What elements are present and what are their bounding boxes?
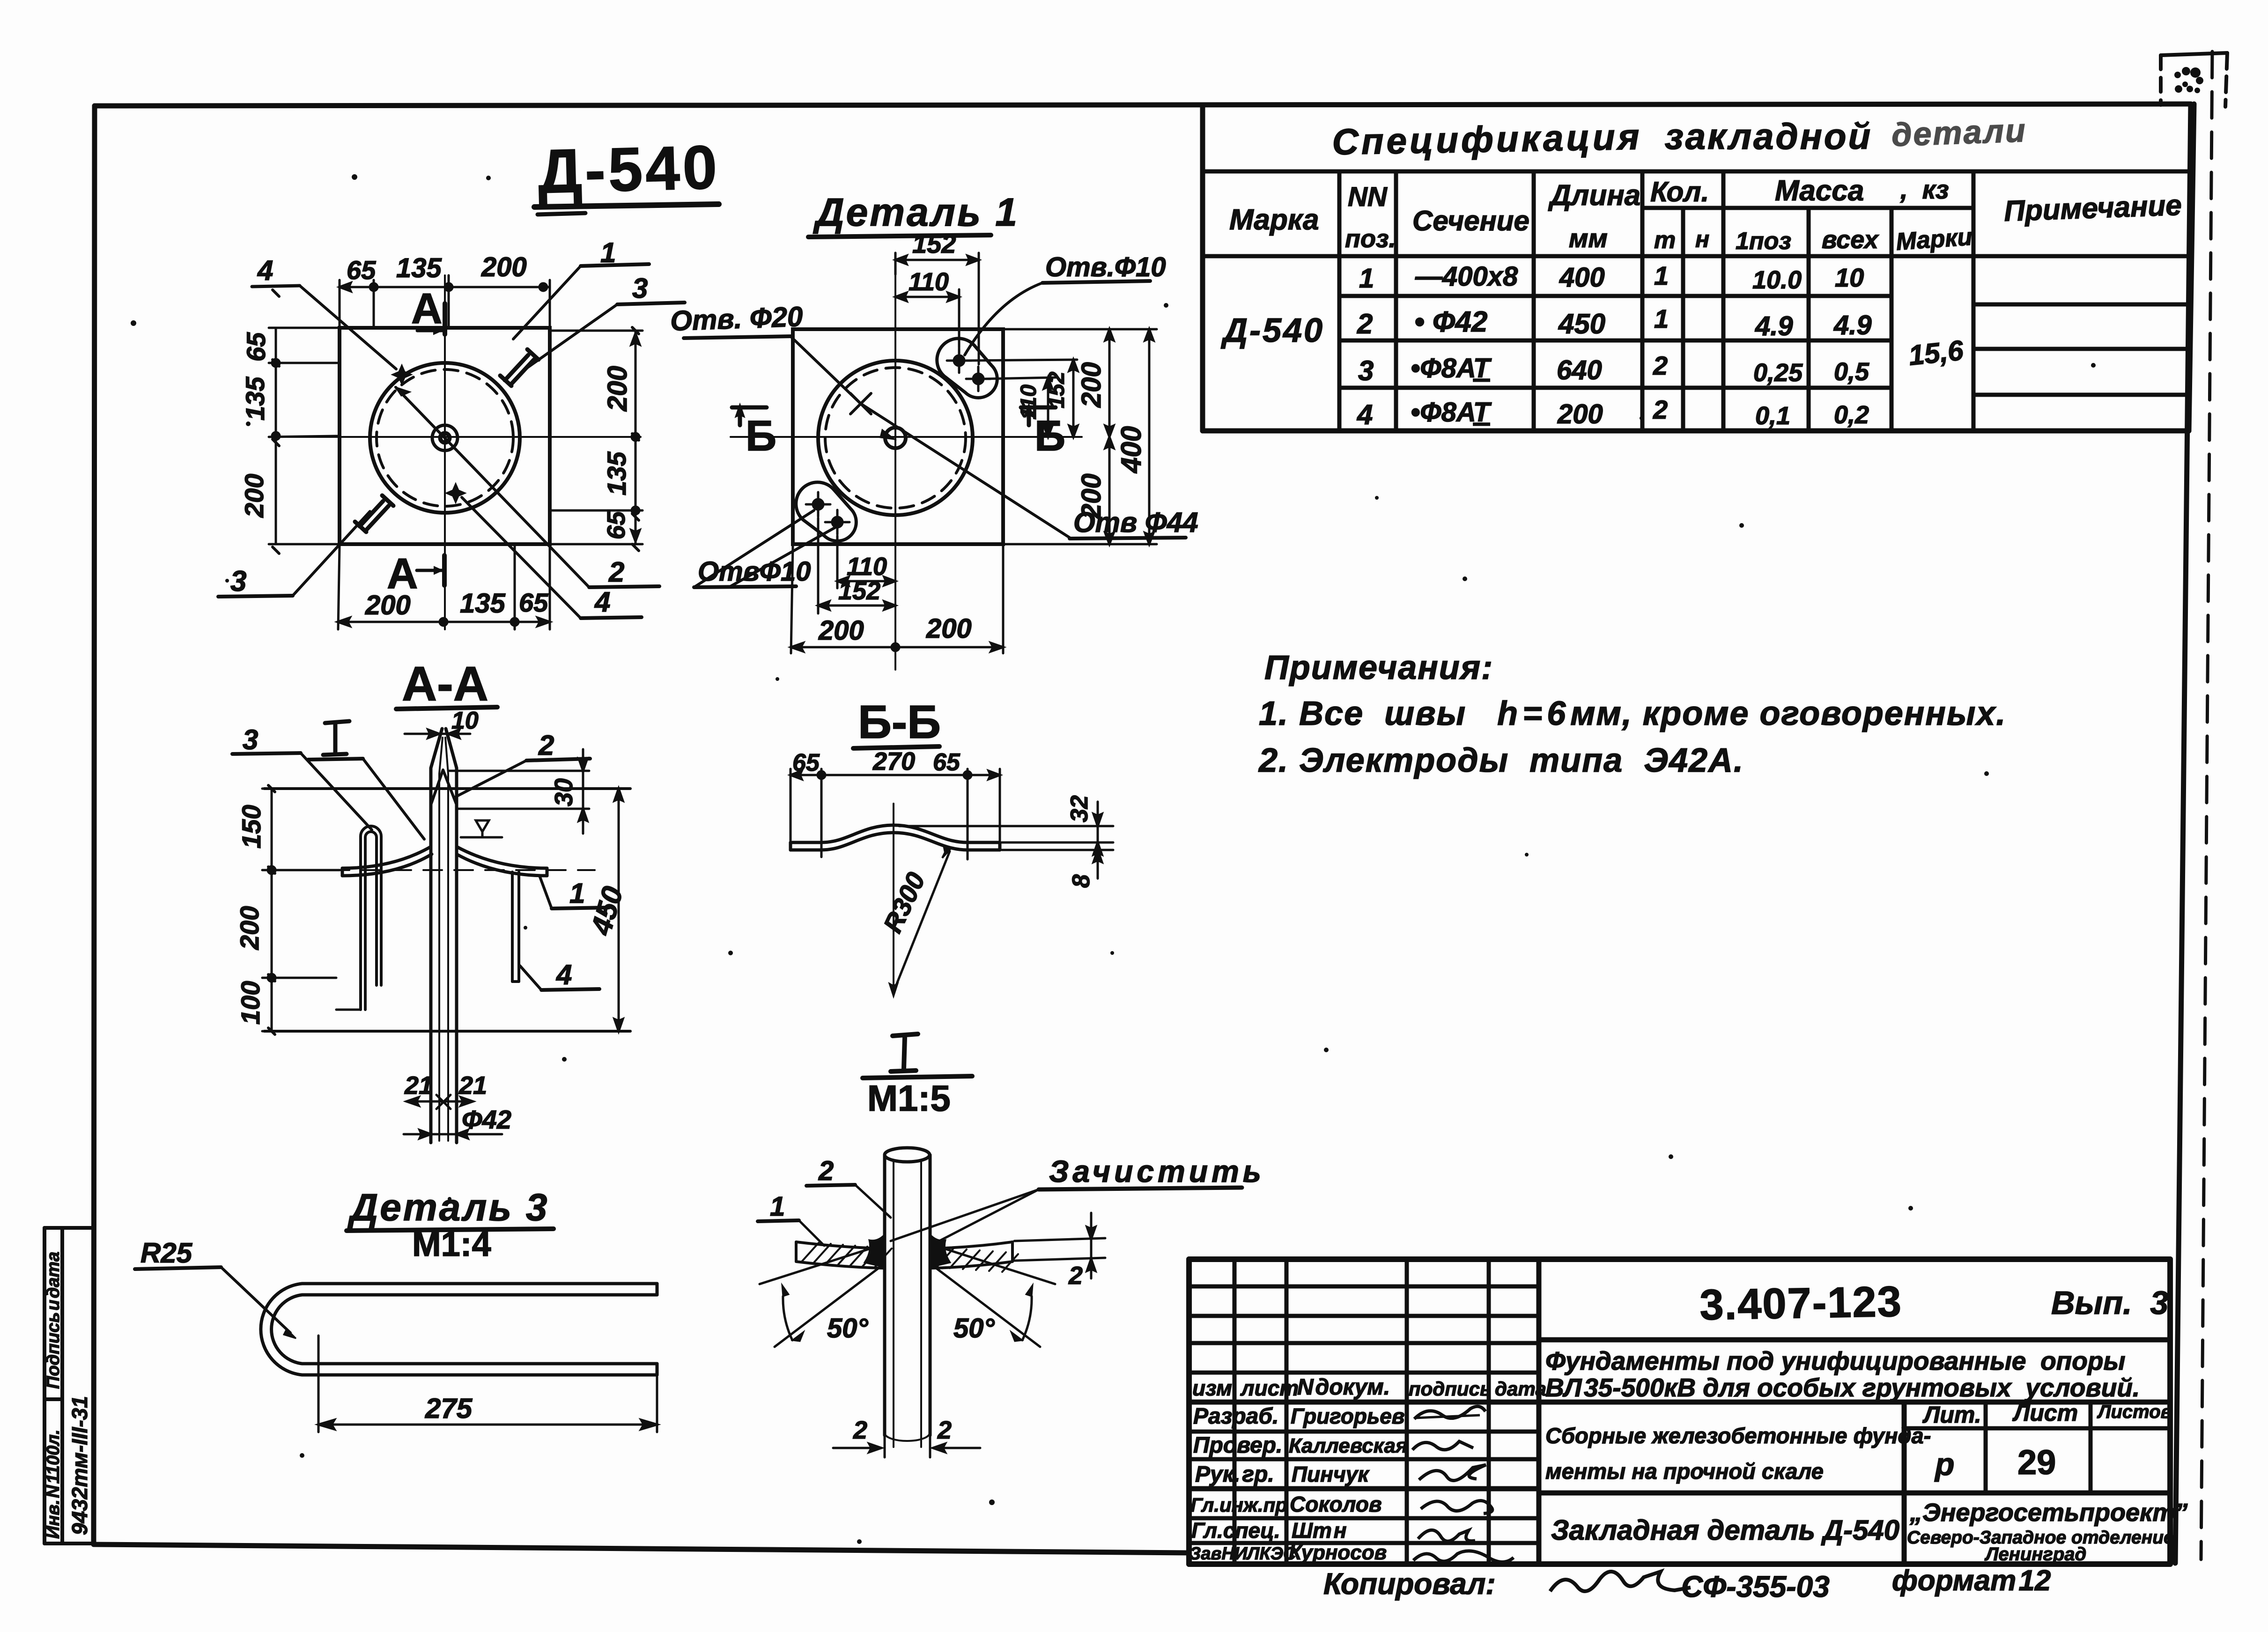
svg-text:3: 3 bbox=[230, 565, 246, 598]
svg-text:М1:4: М1:4 bbox=[412, 1225, 491, 1263]
straight rebar pos.4 bbox=[512, 872, 519, 982]
tube pos.2 bbox=[885, 1148, 930, 1447]
svg-text:Инв. N 1100л.: Инв. N 1100л. bbox=[44, 1430, 63, 1539]
svg-text:65: 65 bbox=[602, 511, 630, 539]
svg-text:32: 32 bbox=[1066, 795, 1093, 822]
svg-text:2: 2 bbox=[1068, 1262, 1083, 1290]
bottom dimension line 200 135 65 bbox=[338, 546, 550, 629]
svg-text:152: 152 bbox=[1044, 372, 1069, 408]
svg-text:0,1: 0,1 bbox=[1755, 402, 1790, 430]
bottom dim f42 bbox=[404, 1130, 502, 1138]
bottom dim 152 bbox=[818, 601, 895, 610]
right dimension line 200 135 65 bbox=[552, 327, 643, 551]
hidden circle dashed bbox=[825, 368, 966, 508]
svg-text:2: 2 bbox=[818, 1156, 834, 1186]
svg-text:•Ф8АТ: •Ф8АТ bbox=[1411, 397, 1492, 428]
svg-text:Фундаменты под унифицированные: Фундаменты под унифицированные опоры bbox=[1545, 1346, 2125, 1375]
svg-text:Зачистить: Зачистить bbox=[1049, 1154, 1265, 1189]
svg-text:Подпись и дата: Подпись и дата bbox=[44, 1252, 63, 1389]
kopiroval line bbox=[1323, 1565, 2051, 1603]
svg-text:2: 2 bbox=[608, 556, 624, 588]
detail mark I bbox=[323, 721, 349, 755]
svg-text:Разраб.: Разраб. bbox=[1193, 1404, 1278, 1429]
svg-text:4: 4 bbox=[594, 586, 610, 618]
anchor star top-left bbox=[392, 365, 411, 384]
curved plate profile bbox=[790, 825, 1000, 850]
title block grid bbox=[1189, 1259, 2170, 1564]
horizontal centerline bbox=[288, 436, 641, 438]
svg-text:0,2: 0,2 bbox=[1834, 401, 1869, 429]
svg-text:65: 65 bbox=[519, 588, 548, 617]
svg-text:10.0: 10.0 bbox=[1752, 266, 1802, 294]
svg-text:R25: R25 bbox=[140, 1237, 193, 1269]
svg-text:Ф42: Ф42 bbox=[462, 1105, 511, 1134]
lower boundary line bbox=[264, 1030, 630, 1033]
svg-text:Провер.: Провер. bbox=[1193, 1433, 1282, 1458]
specification table text bbox=[1220, 112, 2182, 430]
title block text bbox=[1189, 1278, 2187, 1565]
level mark bbox=[461, 820, 502, 837]
svg-text:—400х8: —400х8 bbox=[1415, 261, 1518, 292]
svg-text:65: 65 bbox=[792, 749, 820, 776]
svg-text:Масса: Масса bbox=[1775, 175, 1864, 207]
svg-text:200: 200 bbox=[1076, 362, 1107, 408]
upper boundary line bbox=[264, 787, 630, 790]
horizontal centerline bbox=[731, 436, 1082, 438]
top dimension line 65 135 200 bbox=[340, 275, 550, 328]
top dim 65 270 65 bbox=[790, 769, 1000, 859]
svg-text:50°: 50° bbox=[953, 1313, 995, 1344]
svg-text:Григорьев: Григорьев bbox=[1291, 1404, 1405, 1428]
plate outline bbox=[793, 329, 1003, 544]
svg-text:200: 200 bbox=[1557, 399, 1603, 429]
svg-text:Пинчук: Пинчук bbox=[1292, 1462, 1370, 1486]
svg-text:Д-540: Д-540 bbox=[1220, 312, 1324, 349]
bevel lines left 50 deg bbox=[760, 1246, 882, 1347]
left dimension line 65 135 200 bbox=[269, 290, 337, 554]
svg-text:Д-540: Д-540 bbox=[537, 133, 721, 206]
keyhole cutout bottom-left bbox=[796, 482, 857, 541]
svg-text:640: 640 bbox=[1557, 355, 1602, 385]
svg-text:Сборные железобетонные фунда-: Сборные железобетонные фунда- bbox=[1545, 1423, 1931, 1448]
svg-text:н: н bbox=[1695, 226, 1709, 252]
keyhole cutout top-right bbox=[937, 339, 997, 398]
svg-text:10: 10 bbox=[451, 707, 479, 734]
svg-text:110: 110 bbox=[847, 553, 887, 581]
svg-text:65: 65 bbox=[241, 332, 271, 362]
bevel lines right 50 deg bbox=[932, 1246, 1055, 1347]
plate pos.1 right with hatching bbox=[931, 1242, 1012, 1268]
right gap dim 2 bbox=[1014, 1213, 1105, 1278]
notes bbox=[1258, 649, 2006, 779]
svg-text:1поз: 1поз bbox=[1736, 228, 1791, 255]
svg-text:100: 100 bbox=[236, 981, 265, 1025]
svg-text:0,5: 0,5 bbox=[1834, 358, 1869, 386]
hidden circle dashed bbox=[377, 369, 513, 506]
svg-text:450: 450 bbox=[585, 883, 629, 939]
svg-text:2: 2 bbox=[1653, 351, 1668, 380]
svg-text:Курносов: Курносов bbox=[1289, 1541, 1387, 1564]
svg-text:1: 1 bbox=[569, 878, 585, 909]
svg-text:„Энергосетьпроект”: „Энергосетьпроект” bbox=[1909, 1499, 2187, 1527]
top dim 110 bbox=[895, 289, 959, 347]
svg-text:ВЛ 35-500кВ для особых грунтов: ВЛ 35-500кВ для особых грунтовых условий… bbox=[1545, 1373, 2140, 1402]
svg-text:3: 3 bbox=[1358, 355, 1374, 386]
right margin dashed line bbox=[2201, 52, 2212, 1559]
svg-text:мм: мм bbox=[1569, 223, 1608, 253]
svg-text:200: 200 bbox=[1076, 473, 1107, 519]
weld cone at tube top bbox=[431, 770, 456, 804]
outer circle solid bbox=[370, 363, 520, 513]
svg-text:3: 3 bbox=[243, 724, 258, 755]
right dims 32 and 8 bbox=[899, 802, 1113, 879]
svg-text:30: 30 bbox=[550, 778, 578, 806]
svg-text:всех: всех bbox=[1822, 226, 1879, 254]
svg-text:Шт н: Шт н bbox=[1292, 1518, 1347, 1543]
top dim 152 bbox=[895, 253, 979, 364]
svg-text:270: 270 bbox=[872, 747, 915, 775]
hole f10 b bbox=[966, 367, 990, 391]
svg-text:15,6: 15,6 bbox=[1907, 334, 1965, 371]
svg-text:1: 1 bbox=[1654, 304, 1669, 333]
center hole bbox=[440, 433, 450, 443]
bottom gap dims 2 2 bbox=[833, 1437, 980, 1457]
svg-text:Ленинград: Ленинград bbox=[1984, 1544, 2086, 1565]
svg-text:200: 200 bbox=[481, 252, 527, 282]
svg-text:лист: лист bbox=[1240, 1376, 1299, 1400]
bottom dim 21 21 bbox=[406, 1095, 473, 1109]
svg-text:4: 4 bbox=[556, 959, 572, 990]
svg-text:135: 135 bbox=[460, 588, 506, 619]
svg-text:3: 3 bbox=[632, 273, 648, 304]
plate outline bbox=[340, 328, 550, 544]
rebar bar bottom-left (pos.3) bbox=[355, 495, 393, 532]
svg-text:21: 21 bbox=[404, 1071, 433, 1100]
svg-text:Копировал:: Копировал: bbox=[1323, 1567, 1496, 1601]
tube pos.2 bbox=[431, 729, 457, 1143]
svg-text:Лист: Лист bbox=[2012, 1400, 2078, 1426]
svg-text:Гл.инж.пр: Гл.инж.пр bbox=[1190, 1494, 1287, 1516]
svg-text:152: 152 bbox=[912, 229, 956, 258]
diagonal leader Otv20 to Otv44 bbox=[791, 337, 1070, 538]
svg-text:Листов: Листов bbox=[2097, 1402, 2172, 1422]
page number box bbox=[2161, 53, 2227, 107]
weld fillet left bbox=[864, 1234, 885, 1267]
svg-text:2: 2 bbox=[853, 1416, 867, 1444]
centerline bbox=[893, 804, 894, 989]
svg-text:Спецификация: Спецификация bbox=[1332, 116, 1642, 162]
svg-text:4.9: 4.9 bbox=[1755, 311, 1793, 341]
svg-text:Отв.Ф10: Отв.Ф10 bbox=[1045, 252, 1166, 282]
svg-text:200: 200 bbox=[239, 474, 269, 518]
rebar bar top-right (pos.3) bbox=[500, 349, 539, 386]
svg-text:Лит.: Лит. bbox=[1922, 1402, 1981, 1428]
svg-text:4.9: 4.9 bbox=[1833, 310, 1872, 340]
svg-text:65: 65 bbox=[933, 749, 960, 776]
svg-text:152: 152 bbox=[838, 577, 880, 605]
svg-text:400: 400 bbox=[1116, 426, 1147, 473]
svg-text:А: А bbox=[411, 285, 442, 332]
svg-text:4: 4 bbox=[257, 255, 273, 286]
svg-text:1: 1 bbox=[1654, 261, 1669, 290]
svg-text:Кол.: Кол. bbox=[1650, 176, 1709, 207]
weld fillet right bbox=[930, 1234, 950, 1267]
svg-text:N докум.: N докум. bbox=[1297, 1375, 1390, 1400]
hairpin bar bbox=[261, 1284, 657, 1375]
svg-text:Марки: Марки bbox=[1895, 223, 1973, 256]
svg-text:135: 135 bbox=[396, 253, 442, 283]
dim 30 right of tube bbox=[449, 749, 589, 834]
section mark A top bbox=[417, 303, 445, 334]
svg-text:2: 2 bbox=[538, 730, 554, 761]
center tube circle bbox=[432, 425, 458, 450]
svg-text:9432тм-III-31: 9432тм-III-31 bbox=[67, 1396, 92, 1535]
scan specks bbox=[131, 174, 2096, 1544]
page number 30 bbox=[2174, 67, 2203, 93]
svg-text:10: 10 bbox=[1835, 263, 1864, 292]
svg-text:Примечания:: Примечания: bbox=[1264, 649, 1493, 687]
svg-text:2: 2 bbox=[1357, 308, 1373, 340]
svg-text:Каллевская: Каллевская bbox=[1289, 1434, 1408, 1457]
svg-text:подпись: подпись bbox=[1409, 1378, 1492, 1400]
svg-text:8: 8 bbox=[1068, 874, 1095, 888]
svg-text:1. Все швы h = 6 мм, кроме: 1. Все швы h = 6 мм, кроме оговоренных. bbox=[1259, 695, 2006, 732]
svg-text:поз.: поз. bbox=[1345, 225, 1396, 253]
svg-text:R300: R300 bbox=[878, 868, 931, 937]
svg-text:2: 2 bbox=[937, 1416, 952, 1444]
svg-text:110: 110 bbox=[909, 268, 949, 296]
hook rebar pos.3 bbox=[361, 826, 381, 1010]
detail mark I with scale bbox=[891, 1034, 918, 1071]
bottom dim 200 200 bbox=[791, 546, 1003, 653]
bottom dim 110 bbox=[818, 518, 895, 613]
svg-text:1: 1 bbox=[1359, 263, 1374, 294]
svg-text:275: 275 bbox=[425, 1393, 473, 1424]
bottom tail of hook bbox=[336, 1009, 361, 1011]
svg-text:Гл.спец.: Гл.спец. bbox=[1191, 1518, 1280, 1543]
svg-text:135: 135 bbox=[602, 451, 631, 495]
svg-text:Марка: Марка bbox=[1229, 204, 1319, 236]
svg-text:65: 65 bbox=[347, 255, 376, 285]
svg-text:2. Электроды типа Э42А.: 2. Электроды типа Э42А. bbox=[1258, 742, 1744, 779]
svg-text:Длина: Длина bbox=[1548, 179, 1640, 212]
svg-text:21: 21 bbox=[458, 1071, 487, 1100]
right dim 450 bbox=[614, 789, 623, 1031]
svg-text:3.407-123: 3.407-123 bbox=[1699, 1278, 1903, 1329]
section mark A bottom bbox=[417, 555, 444, 585]
svg-text:, кз: , кз bbox=[1900, 175, 1949, 204]
left stamp rotated text bbox=[44, 1252, 92, 1539]
svg-text:ЗавНИЛКЭС: ЗавНИЛКЭС bbox=[1189, 1544, 1296, 1564]
hole f10 d bbox=[825, 510, 850, 534]
svg-text:NN: NN bbox=[1348, 182, 1388, 212]
svg-text:135: 135 bbox=[240, 377, 270, 421]
svg-text:Отв. Ф20: Отв. Ф20 bbox=[670, 301, 803, 337]
svg-text:т: т bbox=[1654, 227, 1676, 254]
svg-text:1: 1 bbox=[770, 1191, 785, 1222]
svg-text:Б: Б bbox=[746, 412, 776, 460]
outer circle solid bbox=[818, 361, 973, 515]
svg-text:400: 400 bbox=[1559, 262, 1605, 293]
svg-text:дата: дата bbox=[1495, 1378, 1546, 1400]
svg-text:Примечание: Примечание bbox=[2003, 189, 2182, 228]
svg-text:200: 200 bbox=[602, 366, 633, 412]
svg-text:200: 200 bbox=[926, 613, 972, 644]
signatures squiggles bbox=[1412, 1406, 1514, 1562]
svg-text:2: 2 bbox=[1653, 395, 1668, 424]
svg-text:• Ф42: • Ф42 bbox=[1414, 306, 1487, 338]
svg-text:СФ-355-03: СФ-355-03 bbox=[1681, 1570, 1830, 1603]
vertical centerline bbox=[894, 274, 896, 670]
vertical centerline bbox=[444, 275, 446, 629]
svg-text:Рук. гр.: Рук. гр. bbox=[1195, 1462, 1274, 1487]
plate section arcs bbox=[342, 847, 547, 876]
plate dashed centerline bbox=[300, 869, 595, 871]
svg-text:А-А: А-А bbox=[402, 657, 488, 711]
plate pos.1 left with hatching bbox=[796, 1242, 883, 1268]
left dim 150 200 100 bbox=[262, 785, 340, 1034]
svg-text:закладной: закладной bbox=[1665, 116, 1872, 157]
section mark B right bbox=[1021, 405, 1056, 425]
svg-text:Соколов: Соколов bbox=[1290, 1492, 1382, 1516]
svg-text:Закладная деталь Д-540: Закладная деталь Д-540 bbox=[1551, 1514, 1899, 1546]
radius R300 bbox=[894, 851, 950, 992]
left margin stamp bbox=[44, 1228, 94, 1543]
dim 275 bbox=[318, 1336, 657, 1432]
svg-text:200: 200 bbox=[365, 590, 411, 620]
svg-text:•Ф8АТ: •Ф8АТ bbox=[1411, 353, 1492, 384]
svg-text:4: 4 bbox=[1357, 399, 1373, 430]
svg-text:Деталь 3: Деталь 3 bbox=[347, 1186, 549, 1229]
svg-text:М1:5: М1:5 bbox=[867, 1078, 951, 1119]
svg-text:Сечение: Сечение bbox=[1412, 205, 1529, 236]
svg-text:изм: изм bbox=[1192, 1376, 1232, 1400]
svg-text:200: 200 bbox=[235, 906, 264, 950]
svg-text:0,25: 0,25 bbox=[1753, 359, 1803, 387]
svg-text:Б: Б bbox=[1034, 412, 1065, 460]
right dims 110 152 bbox=[965, 360, 1078, 437]
right dims 200 200 400 bbox=[1005, 329, 1157, 544]
svg-text:формат 12: формат 12 bbox=[1892, 1565, 2051, 1597]
svg-text:200: 200 bbox=[818, 615, 864, 646]
dim 10 at top bbox=[405, 730, 470, 738]
svg-text:менты на прочной скале: менты на прочной скале bbox=[1545, 1459, 1824, 1484]
section mark B left bbox=[732, 405, 767, 425]
center hole bbox=[885, 428, 906, 448]
svg-text:50°: 50° bbox=[827, 1313, 869, 1344]
svg-text:Б-Б: Б-Б bbox=[858, 696, 941, 748]
svg-text:29: 29 bbox=[2017, 1443, 2056, 1482]
svg-text:детали: детали bbox=[1891, 112, 2027, 153]
svg-text:450: 450 bbox=[1558, 308, 1605, 340]
svg-text:р: р bbox=[1934, 1447, 1955, 1482]
svg-text:Вып. 3: Вып. 3 bbox=[2051, 1285, 2168, 1321]
svg-text:150: 150 bbox=[236, 805, 266, 849]
anchor star bottom-right bbox=[446, 484, 465, 502]
specification table grid bbox=[1203, 104, 2194, 431]
hole f10 c bbox=[806, 492, 830, 517]
hole f10 a bbox=[947, 348, 971, 373]
svg-text:Деталь 1: Деталь 1 bbox=[813, 190, 1019, 234]
